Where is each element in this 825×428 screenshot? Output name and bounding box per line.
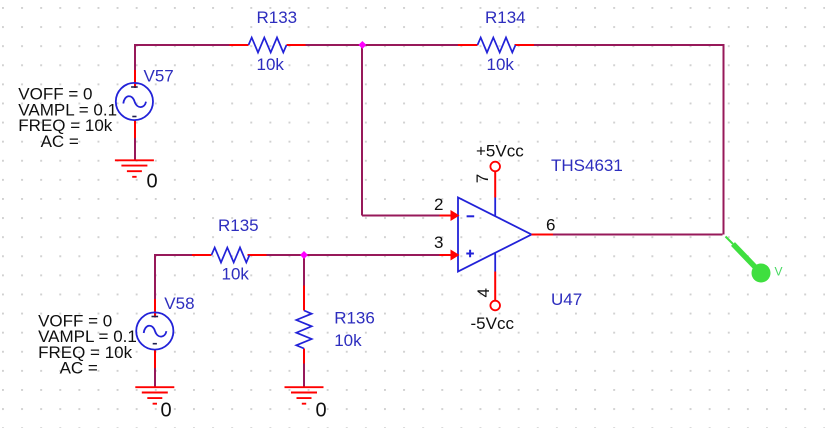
ground 0 at R136 — [285, 387, 327, 421]
svg-text:R134: R134 — [485, 8, 526, 27]
U47 V- pin body segment — [494, 253, 496, 271]
svg-text:AC =: AC = — [41, 132, 79, 151]
svg-text:7: 7 — [473, 174, 492, 183]
V58 minus polarity mark — [153, 343, 157, 345]
svg-text:10k: 10k — [487, 55, 515, 74]
wire: V58 bottom pin stub (red) — [154, 349, 156, 368]
svg-text:3: 3 — [434, 233, 443, 252]
node: junction of R135, R136 and op-amp pin 3 wire — [300, 251, 308, 259]
wire: feedback junction down and across to op-amp pin 2 — [362, 46, 440, 216]
ground 0 at V57 — [115, 160, 158, 192]
wire: junction down to R136 pin 1 — [303, 255, 305, 286]
ground 0 at V58 — [135, 387, 174, 421]
svg-text:V: V — [775, 265, 783, 279]
svg-text:6: 6 — [546, 216, 555, 235]
resistor R133 — [230, 8, 306, 74]
svg-text:R133: R133 — [257, 8, 298, 27]
source V58 (VSIN) — [136, 294, 194, 349]
svg-text:10k: 10k — [334, 331, 362, 350]
U47 V+ pin body segment — [494, 198, 496, 216]
wire: V58 bottom to ground — [154, 368, 156, 387]
svg-text:THS4631: THS4631 — [551, 156, 623, 175]
svg-text:R136: R136 — [334, 309, 375, 328]
V57 plus polarity mark — [131, 86, 138, 88]
V57 property text block — [18, 85, 117, 151]
wire: V57 bottom pin stub (red) — [134, 120, 136, 138]
wire: V57 top up to corner and across to R133 pin 1 — [134, 45, 230, 70]
svg-text:AC =: AC = — [60, 359, 98, 378]
wire: op-amp output pin 6 to right corner output node — [553, 234, 723, 236]
wire: V57 bottom to ground — [134, 138, 136, 160]
wire: R134 pin 2 across and down the right side to output node — [534, 44, 724, 235]
wire: R133 pin 2 to feedback junction to R134 pin 1 — [305, 44, 458, 46]
svg-text:R135: R135 — [218, 216, 259, 235]
power pin 4 with -5Vcc symbol — [471, 272, 515, 333]
svg-text:10k: 10k — [222, 264, 250, 283]
U47 inverting input mark — [467, 215, 475, 217]
power pin 7 with +5Vcc symbol — [473, 141, 524, 197]
wire: R135 pin 2 through junction to op-amp pin 3 — [267, 254, 440, 256]
wire: V58 top up and across to R135 pin 1 — [154, 255, 192, 299]
op-amp pin 6 output stub — [532, 216, 556, 235]
resistor R134 — [458, 8, 534, 74]
wire: V57 top pin stub (red) — [134, 70, 136, 88]
svg-text:0: 0 — [161, 400, 172, 422]
svg-text:U47: U47 — [551, 290, 582, 309]
wire: V58 top pin stub (red) — [154, 299, 156, 318]
svg-text:-5Vcc: -5Vcc — [471, 314, 515, 333]
wire: R136 pin 2 down to ground — [303, 364, 305, 388]
svg-text:2: 2 — [434, 195, 443, 214]
resistor R135 — [192, 216, 267, 283]
voltage probe marker V at output node — [726, 237, 783, 283]
svg-text:0: 0 — [316, 400, 327, 422]
op-amp pin 2 stub with arrow — [434, 195, 460, 221]
svg-text:4: 4 — [474, 288, 493, 297]
U47 non-inverting input mark — [466, 250, 474, 258]
V58 property text block — [38, 311, 137, 377]
svg-text:+5Vcc: +5Vcc — [476, 141, 524, 160]
V57 minus polarity mark — [132, 116, 136, 118]
svg-text:10k: 10k — [257, 55, 285, 74]
node: junction of R133, R134 and feedback wire — [358, 41, 366, 49]
op-amp U47 THS4631 — [458, 156, 623, 309]
svg-text:V58: V58 — [164, 294, 194, 313]
svg-text:0: 0 — [147, 171, 158, 193]
resistor R136 (vertical) — [296, 286, 375, 364]
V58 plus polarity mark — [152, 316, 159, 318]
svg-text:V57: V57 — [144, 66, 174, 85]
op-amp pin 3 stub with arrow — [434, 233, 460, 261]
source V57 (VSIN) — [116, 66, 174, 120]
